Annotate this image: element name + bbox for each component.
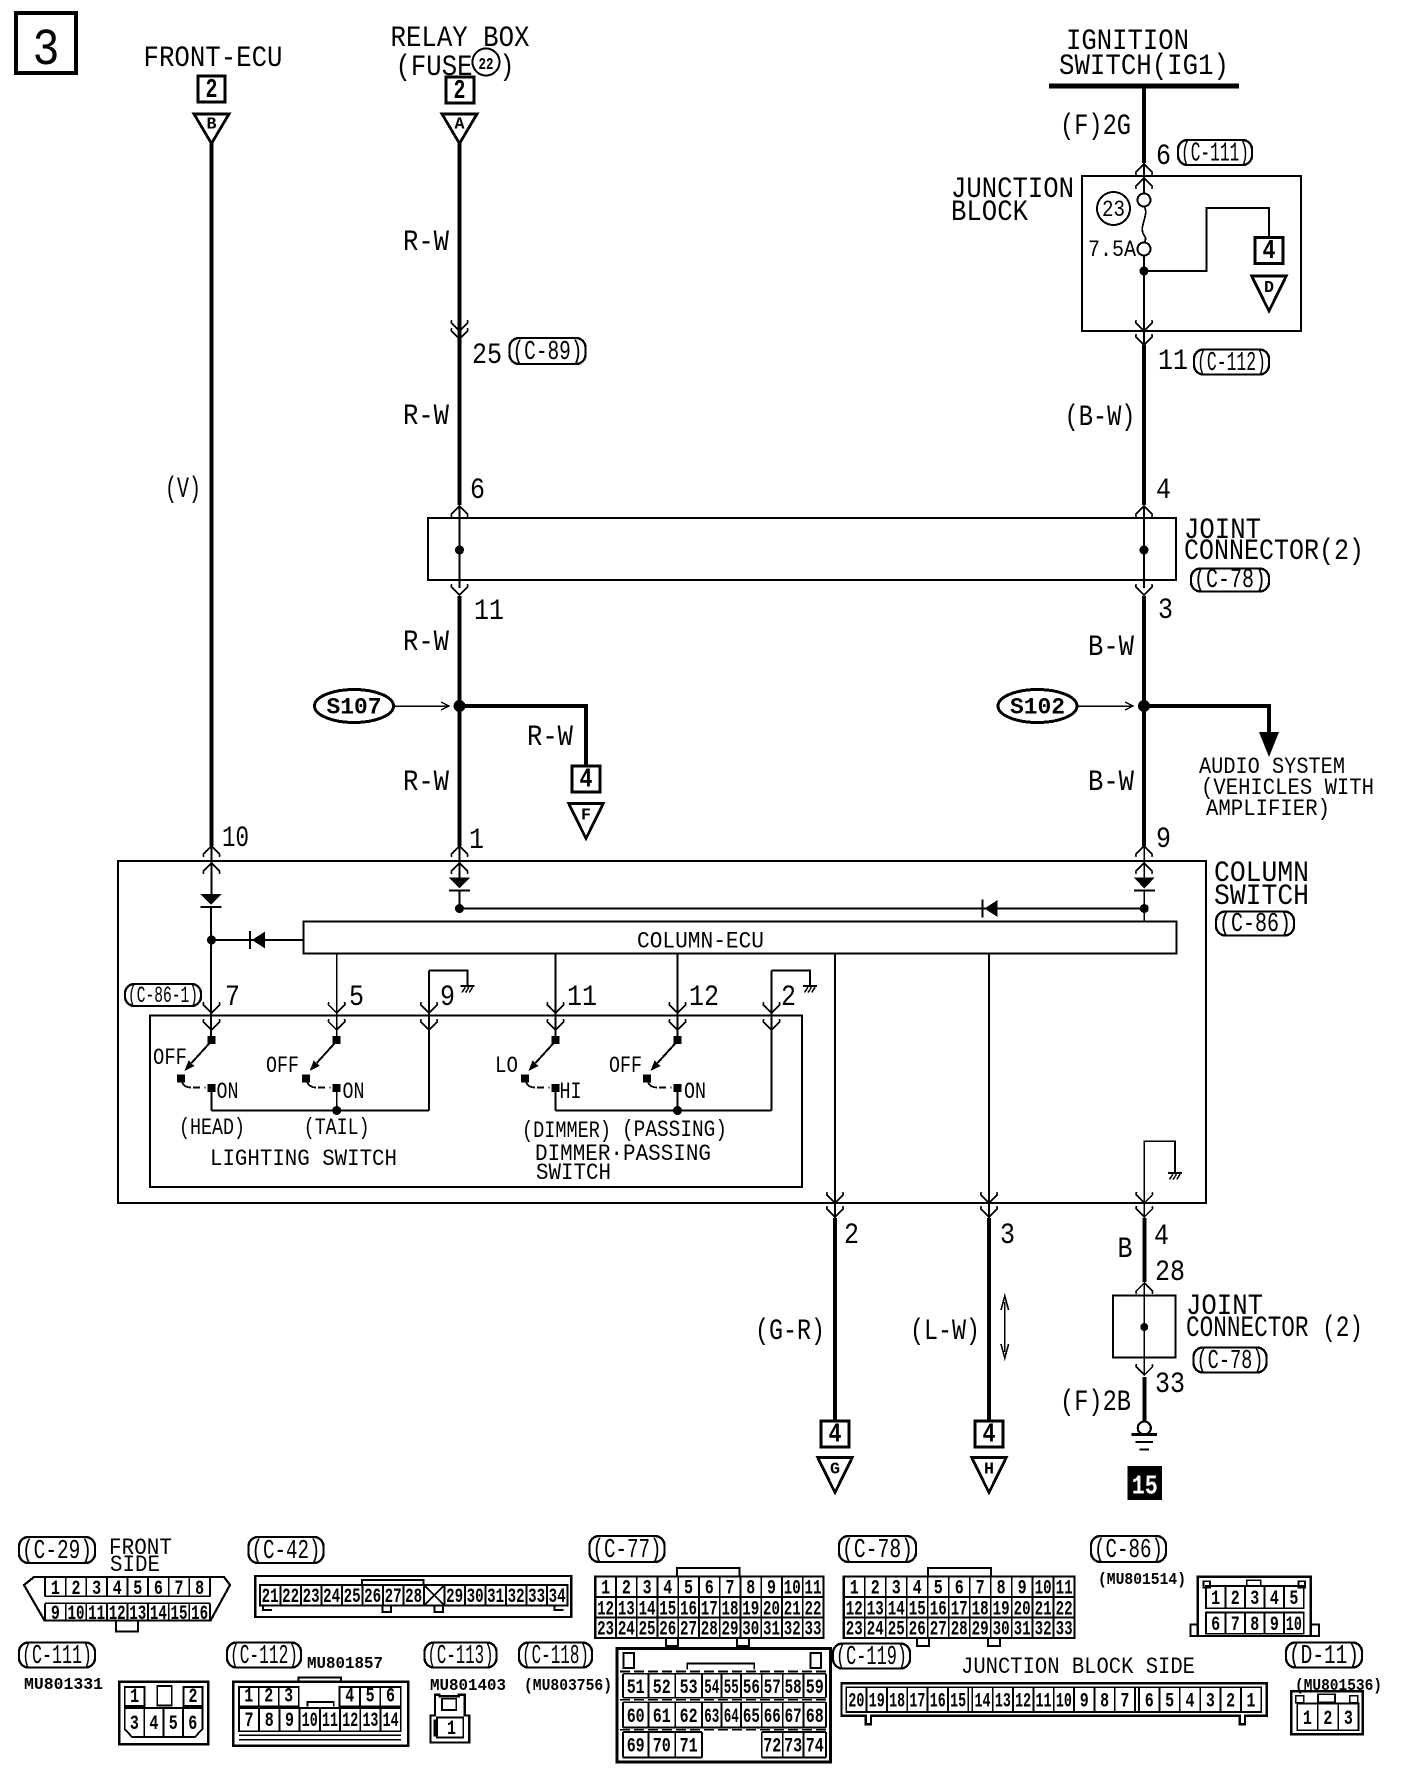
connector label C-42 — [249, 1536, 324, 1566]
connector label C-86 — [1091, 1535, 1166, 1565]
ground hook 9 — [429, 971, 468, 986]
svg-text:4: 4 — [1263, 237, 1276, 267]
svg-text:B-W: B-W — [1088, 631, 1134, 665]
svg-text:9: 9 — [440, 981, 455, 1015]
svg-text:29: 29 — [972, 1619, 989, 1642]
wire switch common 2 to ground — [771, 971, 773, 1111]
svg-text:(C-78): (C-78) — [1194, 565, 1266, 595]
svg-text:4: 4 — [345, 1686, 354, 1709]
COLUMN-ECU box — [304, 922, 1177, 955]
svg-text:(C-111): (C-111) — [1181, 138, 1249, 168]
svg-text:1: 1 — [51, 1578, 60, 1601]
svg-text:5: 5 — [133, 1578, 142, 1601]
svg-text:(C-89): (C-89) — [513, 337, 583, 367]
connector C-113 drawing — [430, 1695, 469, 1743]
connector label C-77 — [590, 1535, 665, 1565]
svg-text:7: 7 — [225, 981, 240, 1015]
svg-text:(PASSING): (PASSING) — [622, 1117, 727, 1143]
wire to audio system — [1144, 706, 1269, 734]
svg-text:5: 5 — [349, 981, 364, 1015]
svg-text:13: 13 — [362, 1710, 378, 1733]
svg-text:51: 51 — [627, 1677, 645, 1700]
svg-text:1: 1 — [447, 1718, 456, 1741]
svg-text:71: 71 — [680, 1736, 698, 1759]
svg-text:HI: HI — [560, 1079, 582, 1105]
junction dot TAIL common — [332, 1106, 341, 1115]
svg-text:33: 33 — [1155, 1368, 1185, 1402]
splice S102 — [998, 690, 1077, 723]
circle 23 (fuse number) — [1097, 192, 1130, 225]
svg-text:4: 4 — [1270, 1588, 1279, 1611]
wire B to joint connector 2 — [1142, 1218, 1146, 1282]
svg-text:LO: LO — [495, 1053, 518, 1079]
svg-text:23: 23 — [303, 1586, 320, 1609]
svg-text:5: 5 — [684, 1578, 693, 1601]
svg-text:33: 33 — [1056, 1619, 1073, 1642]
arrowhead audio system — [1259, 732, 1279, 757]
svg-text:32: 32 — [784, 1619, 801, 1642]
svg-text:FRONT-ECU: FRONT-ECU — [144, 42, 283, 76]
chevron out of joint connector right — [1136, 584, 1153, 595]
svg-text:1: 1 — [1211, 1588, 1220, 1611]
svg-text:20: 20 — [848, 1691, 864, 1714]
svg-text:2: 2 — [189, 1686, 198, 1709]
wire switch common 9 to ground — [428, 971, 430, 1111]
svg-text:7: 7 — [726, 1578, 735, 1601]
wire to pin 4 (D) — [1144, 208, 1269, 271]
svg-text:24: 24 — [867, 1619, 884, 1642]
svg-text:53: 53 — [680, 1677, 698, 1700]
connector label C-29 — [19, 1536, 95, 1566]
svg-text:4: 4 — [663, 1578, 672, 1601]
svg-text:6: 6 — [705, 1578, 714, 1601]
bidirectional arrow on L-W wire — [1001, 1296, 1009, 1358]
connector label D-11 — [1286, 1641, 1362, 1671]
joint connector 2 dot — [1140, 1323, 1148, 1331]
earth ground symbol — [1132, 1422, 1158, 1450]
lighting/dimmer switch inner box — [150, 1016, 802, 1188]
chevron into column switch pin 9 — [1136, 846, 1153, 857]
svg-text:(G-R): (G-R) — [755, 1315, 825, 1349]
svg-text:30: 30 — [742, 1619, 759, 1642]
svg-text:3: 3 — [1158, 594, 1173, 628]
joint connector (2) lower box C-78 — [1113, 1283, 1176, 1375]
chevron into column switch pin 10 — [203, 846, 220, 857]
connector label C-86-1 — [125, 983, 201, 1009]
chassis ground (column switch internal) — [1168, 1173, 1182, 1180]
pin box 4 (F branch) — [572, 766, 600, 796]
svg-text:26: 26 — [659, 1619, 676, 1642]
connector label C-111 (bottom) — [19, 1641, 95, 1671]
wire column-ecu output 3 — [988, 954, 990, 1219]
svg-text:F: F — [581, 807, 591, 826]
svg-text:3: 3 — [892, 1578, 901, 1601]
svg-text:23: 23 — [597, 1619, 614, 1642]
svg-text:7: 7 — [175, 1578, 184, 1601]
wire pin9 to diode — [1143, 846, 1145, 878]
svg-text:B: B — [1118, 1233, 1133, 1267]
svg-text:S102: S102 — [1010, 695, 1065, 721]
arrow S102 to wire — [1077, 702, 1133, 710]
svg-text:2: 2 — [72, 1578, 81, 1601]
svg-text:SIDE: SIDE — [110, 1552, 160, 1578]
wire column-ecu pin 12 — [677, 954, 679, 1041]
svg-text:25: 25 — [472, 339, 502, 373]
svg-text:(C-78): (C-78) — [1197, 1346, 1264, 1376]
svg-text:32: 32 — [1035, 1619, 1052, 1642]
triangle A (RELAY BOX) — [442, 114, 477, 144]
svg-text:14: 14 — [383, 1710, 399, 1733]
svg-text:OFF: OFF — [609, 1053, 642, 1079]
wire R-W branch to pin 4 (F) — [460, 706, 587, 766]
svg-text:AMPLIFIER): AMPLIFIER) — [1206, 796, 1330, 822]
svg-text:7: 7 — [976, 1578, 985, 1601]
svg-text:ON: ON — [343, 1079, 365, 1105]
wire column-ecu pin 11 — [555, 954, 557, 1041]
svg-text:3: 3 — [284, 1686, 293, 1709]
svg-text:(C-29): (C-29) — [22, 1536, 92, 1566]
svg-text:R-W: R-W — [527, 721, 573, 755]
svg-text:24: 24 — [618, 1619, 635, 1642]
connector C-89 crossing — [451, 320, 468, 331]
joint connector dot right — [1140, 546, 1149, 555]
svg-text:2: 2 — [871, 1578, 880, 1601]
junction dot bus — [455, 904, 464, 913]
svg-text:7: 7 — [245, 1710, 254, 1733]
svg-text:12: 12 — [342, 1710, 358, 1733]
svg-text:3: 3 — [1000, 1219, 1015, 1253]
chevron into joint connector 2 — [1136, 1283, 1153, 1294]
svg-text:2: 2 — [622, 1578, 631, 1601]
svg-text:8: 8 — [1250, 1614, 1259, 1637]
svg-text:1: 1 — [244, 1686, 253, 1709]
svg-text:(L-W): (L-W) — [910, 1315, 980, 1349]
svg-text:MU801331: MU801331 — [24, 1676, 103, 1695]
svg-text:(C-112): (C-112) — [230, 1641, 298, 1671]
diode (ignition input) — [1134, 878, 1155, 891]
svg-text:1: 1 — [1303, 1708, 1312, 1731]
svg-text:4: 4 — [149, 1713, 158, 1736]
svg-text:12: 12 — [109, 1603, 126, 1626]
svg-text:19: 19 — [869, 1691, 885, 1714]
wire ignition to junction block — [1142, 86, 1146, 163]
pin box 4 (D branch) — [1255, 237, 1283, 267]
chevron out of column switch pin 4 — [1136, 1192, 1153, 1203]
connector C-119 drawing — [842, 1683, 1267, 1724]
svg-text:27: 27 — [930, 1619, 947, 1642]
svg-text:3: 3 — [130, 1713, 139, 1736]
svg-text:5: 5 — [934, 1578, 943, 1601]
svg-text:10: 10 — [302, 1710, 318, 1733]
junction dot — [207, 936, 216, 945]
svg-text:(F)2G: (F)2G — [1060, 110, 1131, 144]
svg-text:6: 6 — [470, 474, 485, 508]
svg-text:(HEAD): (HEAD) — [179, 1115, 245, 1141]
diode to column-ecu (left) — [250, 931, 265, 949]
svg-text:R-W: R-W — [403, 626, 449, 660]
chassis ground (switch 9) — [461, 986, 475, 993]
diode (front-ecu input) — [201, 894, 222, 907]
column switch outer box C-86 — [118, 861, 1206, 1203]
svg-text:67: 67 — [785, 1706, 802, 1729]
joint connector (2) C-78 box — [428, 518, 1176, 580]
ground id box 15 — [1128, 1466, 1163, 1503]
connector C-42 drawing — [255, 1576, 571, 1617]
svg-text:22: 22 — [479, 56, 494, 75]
svg-text:(D-11): (D-11) — [1289, 1641, 1359, 1671]
diode on bus (pointing left) — [983, 900, 998, 918]
triangle H — [972, 1458, 1007, 1493]
svg-text:2: 2 — [206, 76, 218, 106]
svg-text:9: 9 — [1270, 1614, 1279, 1637]
connector C-29 drawing — [24, 1577, 230, 1632]
triangle B (FRONT-ECU) — [194, 114, 229, 144]
svg-text:22: 22 — [282, 1586, 299, 1609]
svg-text:29: 29 — [446, 1586, 463, 1609]
switch common bus (dimmer/passing) — [556, 1110, 772, 1112]
connector pin box 2 (FRONT-ECU) — [198, 76, 225, 106]
svg-text:10: 10 — [1035, 1578, 1052, 1601]
diode (relay input) — [449, 878, 470, 891]
junction dot PASSING common — [673, 1106, 682, 1115]
fuse 7.5A — [1138, 194, 1151, 256]
connector label C-112 — [1194, 348, 1269, 378]
svg-text:13: 13 — [995, 1691, 1011, 1714]
svg-text:9: 9 — [1156, 823, 1171, 857]
svg-text:4: 4 — [913, 1578, 922, 1601]
connector label C-118 — [519, 1641, 592, 1671]
svg-text:2: 2 — [454, 77, 466, 107]
wire R-W relay to joint connector — [458, 144, 462, 506]
svg-text:(C-42): (C-42) — [252, 1536, 321, 1566]
svg-text:52: 52 — [653, 1677, 671, 1700]
svg-text:26: 26 — [364, 1586, 381, 1609]
svg-text:23: 23 — [1102, 197, 1125, 223]
connector label C-78 — [839, 1535, 916, 1565]
svg-text:7: 7 — [1120, 1691, 1129, 1714]
svg-text:(C-77): (C-77) — [593, 1535, 662, 1565]
svg-text:68: 68 — [806, 1706, 824, 1729]
wire through joint connector right — [1143, 506, 1145, 588]
chevron into junction block — [1136, 164, 1153, 175]
junction dot in junction block — [1140, 267, 1149, 276]
chevron out of junction block — [1136, 320, 1153, 331]
svg-text:55: 55 — [724, 1677, 739, 1700]
svg-text:10: 10 — [1286, 1614, 1302, 1637]
svg-text:MU801403: MU801403 — [430, 1677, 506, 1696]
wire R-W joint connector to column switch — [458, 596, 462, 846]
svg-text:(MU801536): (MU801536) — [1295, 1677, 1382, 1696]
svg-text:MU801857: MU801857 — [307, 1655, 383, 1674]
svg-text:9: 9 — [1080, 1691, 1089, 1714]
wire (L-W) to pin 4 (H) — [987, 1218, 991, 1421]
svg-text:12: 12 — [689, 981, 719, 1015]
svg-text:62: 62 — [680, 1706, 698, 1729]
svg-text:OFF: OFF — [266, 1053, 299, 1079]
svg-text:10: 10 — [784, 1578, 801, 1601]
svg-text:25: 25 — [639, 1619, 656, 1642]
svg-text:69: 69 — [627, 1736, 645, 1759]
svg-text:60: 60 — [627, 1706, 645, 1729]
wire column-ecu output 2 — [834, 954, 836, 1219]
svg-text:2: 2 — [1226, 1691, 1235, 1714]
page number box 3 — [16, 13, 76, 80]
svg-text:BLOCK: BLOCK — [951, 196, 1028, 230]
svg-text:SWITCH(IG1): SWITCH(IG1) — [1059, 50, 1229, 84]
svg-text:6: 6 — [1156, 140, 1171, 174]
ignition switch bus bar — [1049, 84, 1239, 89]
connector label C-78 — [1191, 565, 1269, 595]
svg-text:4: 4 — [1154, 1220, 1169, 1254]
pin box 4 (H branch) — [975, 1421, 1003, 1451]
arrow S107 to wire — [394, 702, 449, 710]
svg-text:(C-86-1): (C-86-1) — [128, 983, 198, 1009]
svg-text:2: 2 — [844, 1219, 859, 1253]
svg-text:3: 3 — [643, 1578, 652, 1601]
svg-text:14: 14 — [150, 1603, 167, 1626]
svg-text:(C-111): (C-111) — [22, 1641, 92, 1671]
svg-text:G: G — [830, 1461, 840, 1480]
svg-text:(C-119): (C-119) — [836, 1642, 907, 1672]
svg-text:11: 11 — [1036, 1691, 1052, 1714]
wire (B-W) to joint connector — [1142, 345, 1146, 505]
svg-text:34: 34 — [549, 1586, 566, 1609]
wire pin10 to diode — [211, 846, 213, 894]
chevron out of joint connector 2 — [1136, 1364, 1153, 1375]
svg-text:15: 15 — [1132, 1473, 1158, 1503]
svg-text:66: 66 — [764, 1706, 781, 1729]
passing switch — [643, 1036, 682, 1111]
connector C-112 drawing — [233, 1677, 408, 1745]
svg-text:31: 31 — [1014, 1619, 1031, 1642]
svg-text:10: 10 — [222, 822, 249, 856]
splice S107 — [315, 690, 394, 723]
svg-text:S107: S107 — [327, 695, 382, 721]
svg-text:6: 6 — [386, 1686, 395, 1709]
ground hook 2 — [772, 971, 811, 986]
svg-text:23: 23 — [846, 1619, 863, 1642]
svg-text:15: 15 — [950, 1691, 966, 1714]
svg-text:1: 1 — [1247, 1691, 1256, 1714]
junction dot bus right — [1140, 904, 1149, 913]
chassis ground (switch 2) — [803, 986, 817, 993]
svg-text:4: 4 — [983, 1421, 996, 1451]
connector label C-113 — [425, 1641, 497, 1671]
junction block box — [1082, 176, 1301, 331]
lighting switch TAIL — [302, 1036, 341, 1111]
connector label C-111 — [1178, 138, 1252, 168]
connector D-11 drawing — [1291, 1691, 1363, 1734]
svg-text:28: 28 — [701, 1619, 718, 1642]
connector C-118 drawing (junction block side) — [617, 1648, 830, 1762]
svg-text:(MU803756): (MU803756) — [524, 1677, 612, 1696]
svg-text:2: 2 — [1323, 1708, 1332, 1731]
svg-text:3: 3 — [33, 21, 60, 80]
svg-text:3: 3 — [1344, 1708, 1353, 1731]
svg-text:28: 28 — [951, 1619, 968, 1642]
connector pin box 2 (RELAY BOX) — [446, 77, 474, 107]
svg-text:2: 2 — [781, 981, 796, 1015]
chevron into joint connector — [451, 506, 468, 517]
svg-text:31: 31 — [763, 1619, 780, 1642]
svg-text:58: 58 — [785, 1677, 802, 1700]
svg-text:(C-118): (C-118) — [522, 1641, 589, 1671]
svg-text:(C-112): (C-112) — [1197, 348, 1266, 378]
bus wire to right side — [460, 908, 1145, 910]
svg-text:ON: ON — [684, 1079, 706, 1105]
svg-text:(F)2B: (F)2B — [1060, 1386, 1131, 1420]
svg-text:21: 21 — [262, 1586, 279, 1609]
svg-text:9: 9 — [767, 1578, 776, 1601]
svg-text:1: 1 — [601, 1578, 610, 1601]
svg-text:6: 6 — [154, 1578, 163, 1601]
svg-text:ON: ON — [217, 1079, 239, 1105]
svg-text:72: 72 — [763, 1736, 781, 1759]
svg-text:33: 33 — [805, 1619, 822, 1642]
svg-text:30: 30 — [993, 1619, 1010, 1642]
svg-text:(C-86): (C-86) — [1094, 1535, 1163, 1565]
svg-text:56: 56 — [743, 1677, 760, 1700]
svg-text:15: 15 — [171, 1603, 188, 1626]
chevron out of joint connector left — [451, 584, 468, 595]
svg-text:57: 57 — [764, 1677, 781, 1700]
svg-text:6: 6 — [955, 1578, 964, 1601]
pin box 4 (G branch) — [821, 1421, 849, 1451]
wire column-ecu pin 5 — [336, 954, 338, 1041]
svg-text:31: 31 — [487, 1586, 504, 1609]
svg-text:18: 18 — [889, 1691, 905, 1714]
svg-text:5: 5 — [169, 1713, 178, 1736]
wire (G-R) to pin 4 (G) — [833, 1218, 837, 1421]
svg-text:(B-W): (B-W) — [1065, 401, 1136, 435]
svg-text:CONNECTOR (2): CONNECTOR (2) — [1186, 1312, 1363, 1346]
splice junction dot S107 — [454, 700, 466, 712]
svg-text:LIGHTING SWITCH: LIGHTING SWITCH — [210, 1146, 397, 1172]
wire B-W joint connector to column switch — [1142, 596, 1146, 846]
triangle G — [818, 1458, 853, 1493]
svg-text:1: 1 — [130, 1686, 139, 1709]
svg-text:5: 5 — [1289, 1588, 1298, 1611]
svg-text:54: 54 — [704, 1677, 719, 1700]
svg-text:8: 8 — [746, 1578, 755, 1601]
svg-text:(MU801514): (MU801514) — [1098, 1571, 1186, 1590]
svg-text:B-W: B-W — [1088, 766, 1134, 800]
svg-text:7.5A: 7.5A — [1088, 237, 1136, 263]
connector label C-112 (bottom) — [227, 1641, 301, 1671]
connector C-77 drawing — [595, 1568, 823, 1646]
svg-text:74: 74 — [806, 1736, 824, 1759]
svg-text:8: 8 — [265, 1710, 274, 1733]
svg-text:27: 27 — [385, 1586, 402, 1609]
wire fuse to block exit — [1143, 256, 1145, 346]
svg-text:25: 25 — [344, 1586, 361, 1609]
wire to earth ground — [1142, 1377, 1146, 1422]
svg-text:65: 65 — [743, 1706, 760, 1729]
wire (V) FRONT-ECU to column switch — [210, 144, 214, 847]
svg-text:10: 10 — [68, 1603, 85, 1626]
svg-text:25: 25 — [888, 1619, 905, 1642]
triangle D — [1252, 276, 1287, 311]
svg-text:9: 9 — [285, 1710, 294, 1733]
svg-text:9: 9 — [51, 1603, 60, 1626]
svg-text:R-W: R-W — [403, 400, 449, 434]
svg-text:A: A — [455, 116, 466, 135]
svg-text:24: 24 — [323, 1586, 340, 1609]
svg-text:59: 59 — [806, 1677, 824, 1700]
svg-text:COLUMN-ECU: COLUMN-ECU — [637, 929, 764, 955]
svg-text:4: 4 — [1185, 1691, 1194, 1714]
svg-text:4: 4 — [580, 766, 593, 796]
